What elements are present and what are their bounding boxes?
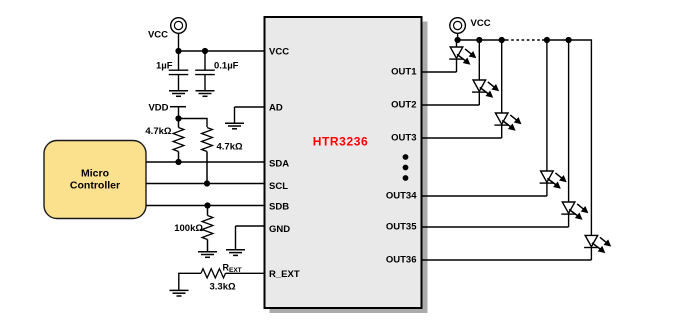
svg-text:VCC: VCC: [148, 30, 168, 41]
wire: top bus solid left part: [458, 39, 506, 41]
svg-text:4.7kΩ: 4.7kΩ: [217, 142, 243, 153]
resistor R2 4.7k (SCL pullup): [202, 128, 213, 184]
wire SDB: [146, 205, 265, 207]
wire OUT3: [422, 137, 502, 139]
svg-text:3.3kΩ: 3.3kΩ: [210, 282, 236, 293]
svg-text:1µF: 1µF: [156, 61, 173, 72]
wire SCL: [146, 183, 265, 185]
svg-text:SDA: SDA: [269, 159, 289, 170]
VCC terminal (left): [171, 18, 187, 34]
node: junction at C1 top: [175, 48, 181, 54]
svg-text:GND: GND: [269, 224, 290, 235]
LED D35: [561, 40, 588, 227]
LED D2: [472, 40, 499, 105]
capacitor C1 1uF: [169, 51, 189, 91]
wire: terminal stem: [457, 33, 459, 40]
LED D1: [449, 40, 476, 72]
svg-text:VCC: VCC: [269, 47, 289, 58]
node: bus junction at D34: [544, 37, 550, 43]
node: bus junction at D35: [566, 37, 572, 43]
LED D36: [584, 235, 611, 260]
svg-text:OUT1: OUT1: [391, 67, 417, 78]
wire: top bus solid right part + corner down: [542, 40, 591, 235]
svg-text:OUT34: OUT34: [386, 191, 417, 202]
capacitor C2 0.1uF: [195, 51, 215, 91]
wire: resistor to ground corner: [179, 273, 201, 290]
ellipsis dots inside U1: [403, 154, 409, 181]
svg-text:VDD: VDD: [148, 103, 168, 114]
node: bus junction at D1: [455, 37, 461, 43]
wire OUT35: [422, 226, 569, 228]
resistor R3 100k: [202, 206, 213, 252]
svg-text:AD: AD: [269, 103, 283, 114]
svg-text:Controller: Controller: [70, 180, 120, 192]
IC U1 shadow: [270, 22, 428, 314]
resistor R_EXT 3.3k: [201, 269, 226, 278]
LED D3: [494, 40, 521, 138]
svg-text:0.1µF: 0.1µF: [214, 61, 239, 72]
wire: R_EXT pin to resistor: [226, 272, 265, 274]
wire: AD pin to ground: [235, 107, 265, 123]
svg-text:OUT3: OUT3: [391, 133, 416, 144]
wire: VCC bus to U1 VCC pin: [179, 50, 265, 52]
Micro Controller block: [44, 141, 146, 219]
svg-text:HTR3236: HTR3236: [313, 135, 369, 149]
wire: VDD stem: [178, 107, 180, 119]
ground (AD): [225, 123, 244, 129]
node: bus junction at D3: [499, 37, 505, 43]
node: R1 to SDA: [175, 159, 181, 165]
wire OUT34: [422, 195, 547, 197]
node: bus junction at D2: [476, 37, 482, 43]
ground (C1): [169, 91, 188, 97]
resistor R1 4.7k (SDA pullup): [173, 119, 184, 163]
svg-text:4.7kΩ: 4.7kΩ: [145, 126, 171, 137]
VCC terminal (right): [450, 18, 466, 34]
wire SDA: [146, 161, 265, 163]
wire: GND pin to ground: [236, 226, 265, 250]
wire: terminal to bus: [178, 33, 180, 51]
IC U1 HTR3236 body: [265, 17, 422, 308]
LED D34: [540, 40, 567, 196]
wire OUT2: [422, 104, 480, 106]
ground (R3): [198, 252, 217, 258]
ground (R_EXT): [170, 290, 189, 296]
svg-text:SDB: SDB: [269, 202, 289, 213]
node: junction at C2 top: [202, 48, 208, 54]
svg-text:SCL: SCL: [269, 181, 288, 192]
svg-text:VCC: VCC: [471, 18, 491, 29]
svg-text:R_EXT: R_EXT: [269, 269, 300, 280]
wire OUT1: [422, 71, 457, 73]
ground (GND pin): [226, 250, 245, 256]
svg-text:OUT36: OUT36: [386, 255, 417, 266]
node: VDD junction: [175, 115, 181, 121]
node: R2 to SCL: [204, 180, 210, 186]
wire OUT36: [422, 259, 592, 261]
wire: VDD to R2 top: [179, 119, 208, 128]
ground (C2): [196, 91, 215, 97]
node: SDB junction: [204, 202, 210, 208]
wire: top bus dashed part: [506, 39, 542, 41]
svg-text:OUT35: OUT35: [386, 222, 417, 233]
svg-text:100kΩ: 100kΩ: [174, 223, 203, 234]
svg-text:Micro: Micro: [81, 168, 109, 180]
svg-text:OUT2: OUT2: [391, 100, 416, 111]
